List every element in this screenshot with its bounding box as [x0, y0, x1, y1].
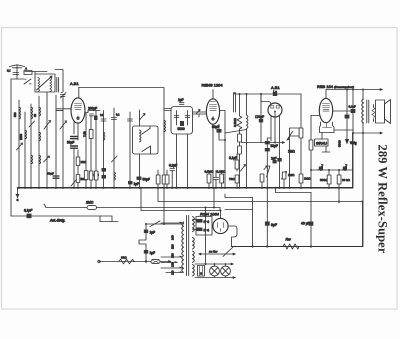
wire x172 short — [171, 171, 173, 188]
resistor R2 box on x164 — [162, 175, 166, 184]
coil on x114 — [114, 172, 116, 180]
resistor box on x86 — [84, 171, 88, 180]
wire x167 column — [166, 170, 168, 188]
coupling cap black on AB1 wire — [273, 92, 277, 96]
resistor R8 box — [207, 174, 211, 183]
capacitor C-ant — [13, 73, 19, 75]
capacitor C2 — [61, 95, 66, 97]
wire x130 column — [129, 112, 131, 188]
svg-text:0,1µF: 0,1µF — [349, 105, 356, 109]
IF can T1 — [171, 107, 193, 135]
wire mains y261.5 — [99, 261, 171, 263]
tube V4 anode rows — [323, 104, 330, 112]
resistor R9 box — [220, 174, 224, 183]
main ground bus — [18, 187, 353, 189]
capacitor black stack — [102, 168, 107, 172]
VR top lead — [220, 211, 222, 219]
T2 core lines — [367, 100, 369, 123]
svg-text:40 µF: 40 µF — [301, 222, 310, 226]
wire V1 anode right with step — [85, 111, 100, 113]
svg-text:30Ω: 30Ω — [121, 256, 127, 260]
fuse box left of lamps — [198, 266, 205, 277]
resistor R4 box — [165, 175, 169, 184]
wire x279 down — [279, 115, 281, 158]
V3 below wires — [271, 116, 275, 143]
tube V2 cathode — [212, 117, 214, 121]
resistor R12 box on x302 — [299, 128, 303, 138]
tube V1 envelope — [71, 98, 85, 123]
wire V1 cath to bus — [73, 148, 75, 188]
svg-text:1µF: 1µF — [271, 157, 277, 161]
tube V1 top cap lead — [78, 88, 80, 98]
grid arrow V2 — [196, 110, 200, 115]
coil box L1/L2 — [35, 74, 55, 92]
node dots left bus — [18, 187, 64, 189]
potentiometer P1 — [290, 128, 301, 136]
wire x141 drop to y210 — [141, 188, 220, 211]
resistor column x78 — [77, 150, 79, 188]
switch S2 — [61, 93, 67, 99]
wire coil bottom junction — [362, 123, 364, 133]
diagonal wire — [225, 130, 247, 134]
wire x302 column (AB1 line down) — [300, 94, 302, 188]
grid wire to V4 — [311, 115, 320, 117]
electrolytic E1 arrow — [319, 165, 324, 171]
wire box to right column — [55, 70, 63, 93]
V3 cathode dot — [274, 111, 276, 117]
svg-text:289 W Reflex-Super: 289 W Reflex-Super — [376, 145, 390, 254]
T3 primary taps — [161, 222, 182, 272]
box GRAU — [315, 139, 329, 146]
lamp leads — [215, 264, 226, 278]
svg-text:7,5k: 7,5k — [83, 131, 87, 137]
switch on x114 — [112, 156, 118, 162]
VR heater loop — [228, 226, 237, 247]
node — [220, 210, 222, 212]
svg-text:0,1: 0,1 — [7, 69, 11, 73]
resistor R10 box + trimmer — [235, 160, 239, 169]
wire x239 to bus — [239, 142, 241, 188]
wire y224 drop to transformer — [182, 222, 184, 224]
T3 secondary mid — [193, 238, 195, 249]
wire x91 column — [90, 116, 92, 188]
T1 core blob — [180, 121, 184, 126]
tube V2 top cap lead — [212, 90, 214, 99]
wire dbl vertical x234.5 — [234, 93, 236, 113]
wire x96 column — [95, 111, 97, 188]
svg-text:2MΩ: 2MΩ — [85, 201, 94, 205]
V2 plate wire right — [220, 111, 225, 188]
capacitor 170pF — [260, 94, 262, 119]
svg-text:50µF: 50µF — [143, 178, 150, 182]
svg-text:170pF: 170pF — [255, 115, 264, 119]
T3 secondary HV — [193, 217, 195, 232]
V2 screen wire down — [212, 124, 214, 188]
capacitor black C5 — [94, 116, 98, 121]
wire y207.5 corner into VR area — [219, 208, 221, 211]
coil L5 — [25, 130, 27, 139]
node dots tube2 — [212, 93, 262, 189]
resistor box on x96 — [94, 171, 98, 180]
svg-text:0,1µF: 0,1µF — [24, 209, 33, 213]
wire x352.5 riser — [352, 133, 354, 188]
lamp La2 — [221, 266, 231, 276]
terminal box A — [24, 71, 32, 75]
speaker back line — [373, 105, 375, 122]
wire AB1 coupling line — [235, 93, 302, 95]
lamp top line y264 — [195, 263, 233, 265]
svg-text:110: 110 — [171, 270, 175, 275]
svg-text:GRAU: GRAU — [316, 142, 327, 146]
coil L6b — [31, 155, 33, 164]
svg-text:0,5MΩ: 0,5MΩ — [205, 170, 215, 174]
node dots V3 — [266, 142, 290, 189]
coil L9 — [39, 155, 41, 164]
svg-text:Rw: Rw — [286, 238, 292, 242]
node dots bottom — [140, 187, 364, 248]
resistor R1 box — [89, 130, 93, 139]
wire bias y170 — [311, 169, 353, 171]
wire x205.5 drop to lamps — [205, 208, 207, 265]
wire x158 column — [157, 170, 159, 188]
wire y216 — [11, 215, 100, 217]
wire grid feed tube1 — [56, 109, 71, 111]
node dots mid — [129, 187, 189, 189]
wire x362.5 right border — [362, 202, 364, 247]
capacitor C11 black — [345, 115, 350, 119]
svg-text:1MΩ: 1MΩ — [288, 173, 295, 177]
svg-text:RGN 1064: RGN 1064 — [200, 212, 220, 217]
lamp La1 — [210, 266, 220, 276]
node dots right — [346, 89, 364, 135]
svg-text:220: 220 — [171, 244, 175, 249]
T1 bottom leads — [177, 134, 188, 188]
svg-text:1µF: 1µF — [150, 231, 156, 235]
wire V1 top cap to x164 — [79, 88, 164, 188]
switch S1 — [24, 79, 31, 84]
tube V4 base box — [320, 122, 335, 133]
switch box L12 — [133, 126, 159, 154]
wire x363 down to bottom right corner — [362, 133, 364, 247]
wire x209 — [208, 171, 210, 188]
coil L2 — [50, 78, 52, 92]
tube V3 envelope circle — [268, 103, 282, 117]
trim arrow on x19 — [17, 143, 23, 150]
svg-text:8µF: 8µF — [271, 223, 277, 227]
capacitor 0.2uF — [170, 169, 175, 171]
svg-text:100pF: 100pF — [88, 107, 97, 111]
speaker cone — [385, 100, 391, 124]
resistor 2M pill — [87, 206, 97, 210]
wire base to GRAU — [322, 133, 330, 153]
svg-text:(4 v): (4 v) — [204, 228, 210, 232]
base internal — [323, 123, 332, 128]
capacitor line x353 — [352, 90, 354, 109]
svg-text:1MΩ: 1MΩ — [304, 177, 311, 181]
svg-text:10 kΩ: 10 kΩ — [342, 178, 351, 182]
svg-text:RES 164 (Dauerspeiser): RES 164 (Dauerspeiser) — [317, 84, 354, 89]
svg-text:50µF: 50µF — [67, 141, 74, 145]
wire y142 link — [242, 142, 285, 144]
svg-text:60: 60 — [33, 114, 37, 117]
capacitor C8 — [128, 119, 133, 121]
resistor R13 box on x302 — [299, 174, 303, 183]
resistor R16 box — [337, 175, 341, 184]
svg-text:zu Rw: zu Rw — [208, 250, 218, 254]
antenna lead wire — [16, 66, 18, 80]
coil L7 — [39, 107, 41, 116]
antenna A1 — [10, 65, 25, 68]
capacitor 100pF — [90, 114, 94, 116]
T3 secondary lamp — [193, 265, 195, 276]
resistor box on x91 — [89, 171, 93, 180]
heater plates box — [196, 217, 212, 236]
capacitor C12 black — [351, 109, 356, 113]
wire x139 column — [139, 110, 141, 188]
output transformer T2 primary coil — [362, 90, 364, 100]
tube V2 top detail — [211, 101, 216, 103]
ground arrow W — [345, 139, 349, 145]
trim arrow on x63 — [60, 121, 67, 129]
wire x103 column — [103, 111, 105, 188]
wire y207.5 — [44, 204, 220, 208]
resistor R3 box — [156, 175, 160, 184]
resistor R5 zigzag 0.3M — [237, 94, 242, 134]
tube V1 cathode — [77, 116, 79, 120]
switch S3 — [29, 121, 35, 127]
coil L8 — [39, 132, 41, 141]
wire y197.5 link — [225, 194, 253, 210]
electrolytic E2 arrow — [343, 165, 348, 171]
svg-text:0,2µF: 0,2µF — [169, 164, 177, 168]
wire column x31 — [30, 104, 32, 188]
T3 secondary low — [193, 251, 195, 262]
wire top to coil box — [25, 72, 47, 75]
svg-text:0,1MΩ: 0,1MΩ — [217, 170, 227, 174]
choke loop on y216 — [100, 216, 118, 222]
svg-text:Ant.-Erdg.: Ant.-Erdg. — [49, 219, 65, 223]
potentiometer P2 7-shape — [261, 174, 263, 188]
svg-text:0,1µF: 0,1µF — [229, 156, 237, 160]
coil L11 on x164 — [164, 120, 166, 132]
coil L1 — [38, 78, 40, 92]
cap chain x146 — [145, 224, 147, 230]
cap C9 top of can — [180, 103, 185, 105]
coil L13 inside box — [140, 130, 142, 142]
wire speaker return y133 — [353, 132, 382, 134]
wire pair into IF can — [164, 109, 171, 111]
tube V2 envelope — [206, 99, 219, 124]
wire x86 column — [85, 113, 87, 188]
plate black bar 1 — [197, 219, 203, 223]
junction mains — [145, 223, 165, 263]
V3 grid feed curve — [261, 102, 271, 105]
wire y201.5 long — [158, 188, 363, 202]
svg-text:500Ω: 500Ω — [320, 178, 328, 182]
capacitor line x347 — [346, 90, 348, 115]
capacitor C6 on x103 — [101, 119, 106, 121]
svg-text:5000: 5000 — [338, 140, 342, 147]
svg-text:2000: 2000 — [19, 134, 23, 140]
capacitor 50uF lower — [71, 146, 78, 148]
wire B+ top y89.5 — [326, 89, 382, 91]
svg-text:150: 150 — [171, 253, 175, 258]
svg-text:5000: 5000 — [178, 127, 185, 131]
tube V2 anode — [210, 105, 217, 111]
capacitor 8uF on x311 — [310, 193, 312, 222]
switch blade near x74 — [71, 180, 77, 187]
wire column x56 — [55, 95, 57, 188]
svg-text:50µF: 50µF — [212, 125, 219, 129]
svg-text:A.B1: A.B1 — [70, 81, 79, 86]
resistor R7 box — [238, 146, 242, 154]
wire antenna to switch — [11, 78, 24, 80]
capacitor 50uF C3 — [53, 176, 59, 178]
resistor R15 box — [327, 175, 331, 184]
diagonal wire to lamp line — [223, 247, 233, 257]
svg-text:240: 240 — [171, 235, 175, 240]
coil L6 — [31, 107, 33, 119]
node dots row2 — [73, 187, 115, 189]
zigzag resistor mains — [119, 259, 134, 264]
svg-text:1µF: 1µF — [178, 98, 184, 102]
V3 electrodes — [271, 106, 274, 109]
V4 plate wire right — [333, 110, 353, 112]
T1 output wires to V2 — [193, 112, 207, 117]
capacitor 1uF black — [277, 158, 281, 162]
lamp bottom line y277.5 — [195, 277, 235, 279]
wire x214 drop — [213, 188, 215, 208]
capacitor 50uF black mid — [137, 177, 142, 180]
svg-text:(4 v): (4 v) — [204, 220, 210, 224]
wire column x63 down — [62, 97, 64, 188]
wire column x25 — [24, 112, 26, 188]
ground arrow down-left — [17, 188, 19, 198]
wire column x39 — [38, 96, 40, 188]
svg-text:500: 500 — [13, 112, 17, 117]
resistor Rw zigzag — [283, 244, 299, 249]
T1 right tuning cap — [185, 111, 190, 126]
svg-text:50µF: 50µF — [271, 144, 278, 148]
svg-text:0,3MΩ: 0,3MΩ — [233, 117, 237, 127]
tube V1 pin wires — [74, 122, 78, 141]
V4 base output wire — [334, 129, 353, 131]
svg-text:RENS 1264: RENS 1264 — [202, 83, 224, 88]
fuse pill on mains — [151, 260, 160, 264]
resistor R6 box — [238, 134, 242, 142]
wire x147 inside box — [149, 126, 152, 154]
wire left border — [10, 79, 12, 216]
variometer arrow — [37, 76, 53, 90]
T3 primary winding — [182, 222, 184, 272]
wires plates to transformer — [193, 220, 197, 230]
VR internal — [218, 223, 224, 232]
T3 core — [187, 216, 189, 276]
capacitor 1uF black on x130 — [128, 181, 133, 184]
coil L14 x246 — [246, 94, 248, 115]
tube V4 envelope — [319, 98, 332, 122]
svg-text:1µF: 1µF — [134, 182, 140, 186]
arrow line Rw feed y254 — [199, 253, 236, 255]
capacitor black on y216 — [27, 214, 32, 219]
svg-text:70Ω: 70Ω — [229, 177, 235, 181]
coil L3 with core — [57, 78, 59, 93]
wire x114 column — [113, 108, 115, 188]
wire x311 column — [310, 116, 312, 188]
capacitor 50uF below V2 — [218, 124, 220, 129]
speaker SP frame — [376, 100, 385, 123]
switch blade on y224 — [150, 221, 160, 227]
wire y192.5 link — [276, 188, 312, 193]
resistor R11 box — [235, 175, 239, 183]
switch arrow S4 — [44, 121, 51, 130]
capacitor 50uF stack below V3 — [265, 141, 270, 144]
svg-text:1MΩ: 1MΩ — [288, 150, 295, 154]
capacitor 8uF on x267 — [266, 188, 268, 222]
tube V1 anode plate — [75, 104, 82, 110]
node dots bias — [300, 169, 346, 189]
T2 secondary / voice coil — [372, 108, 375, 118]
tuning arrow — [44, 156, 50, 162]
capacitor C7 — [112, 118, 117, 120]
svg-text:50µF: 50µF — [47, 172, 54, 176]
capacitor C10 — [214, 178, 219, 180]
capacitor 1uF black top — [273, 160, 277, 163]
svg-text:1µF: 1µF — [150, 251, 156, 255]
resistor R14 box on x311 — [309, 140, 313, 150]
svg-text:125: 125 — [171, 262, 175, 267]
filter bus bottom y246.5 — [232, 246, 363, 248]
wire x261 down — [260, 94, 262, 102]
svg-text:0,1: 0,1 — [116, 113, 120, 117]
svg-text:1MΩ: 1MΩ — [81, 160, 87, 164]
trimmer T2 — [282, 172, 287, 180]
coil L10 — [104, 132, 106, 140]
capacitor 50uF below V1 — [71, 137, 78, 139]
switch blade inside — [142, 129, 151, 152]
tube V4 top lead — [325, 90, 327, 99]
wire switch row y224 — [146, 223, 182, 225]
switch blade top — [140, 114, 146, 121]
wire column x47 — [46, 92, 48, 188]
wire x164 drop — [163, 188, 165, 224]
wire column x19 — [18, 100, 20, 188]
T1 left tuning cap — [174, 111, 179, 126]
plate black bar 2 — [197, 228, 203, 232]
wire x252.5 drop — [252, 198, 254, 247]
svg-text:A: A — [25, 67, 27, 71]
coil L4 — [19, 107, 21, 119]
rectifier tube VR envelope — [213, 218, 228, 233]
